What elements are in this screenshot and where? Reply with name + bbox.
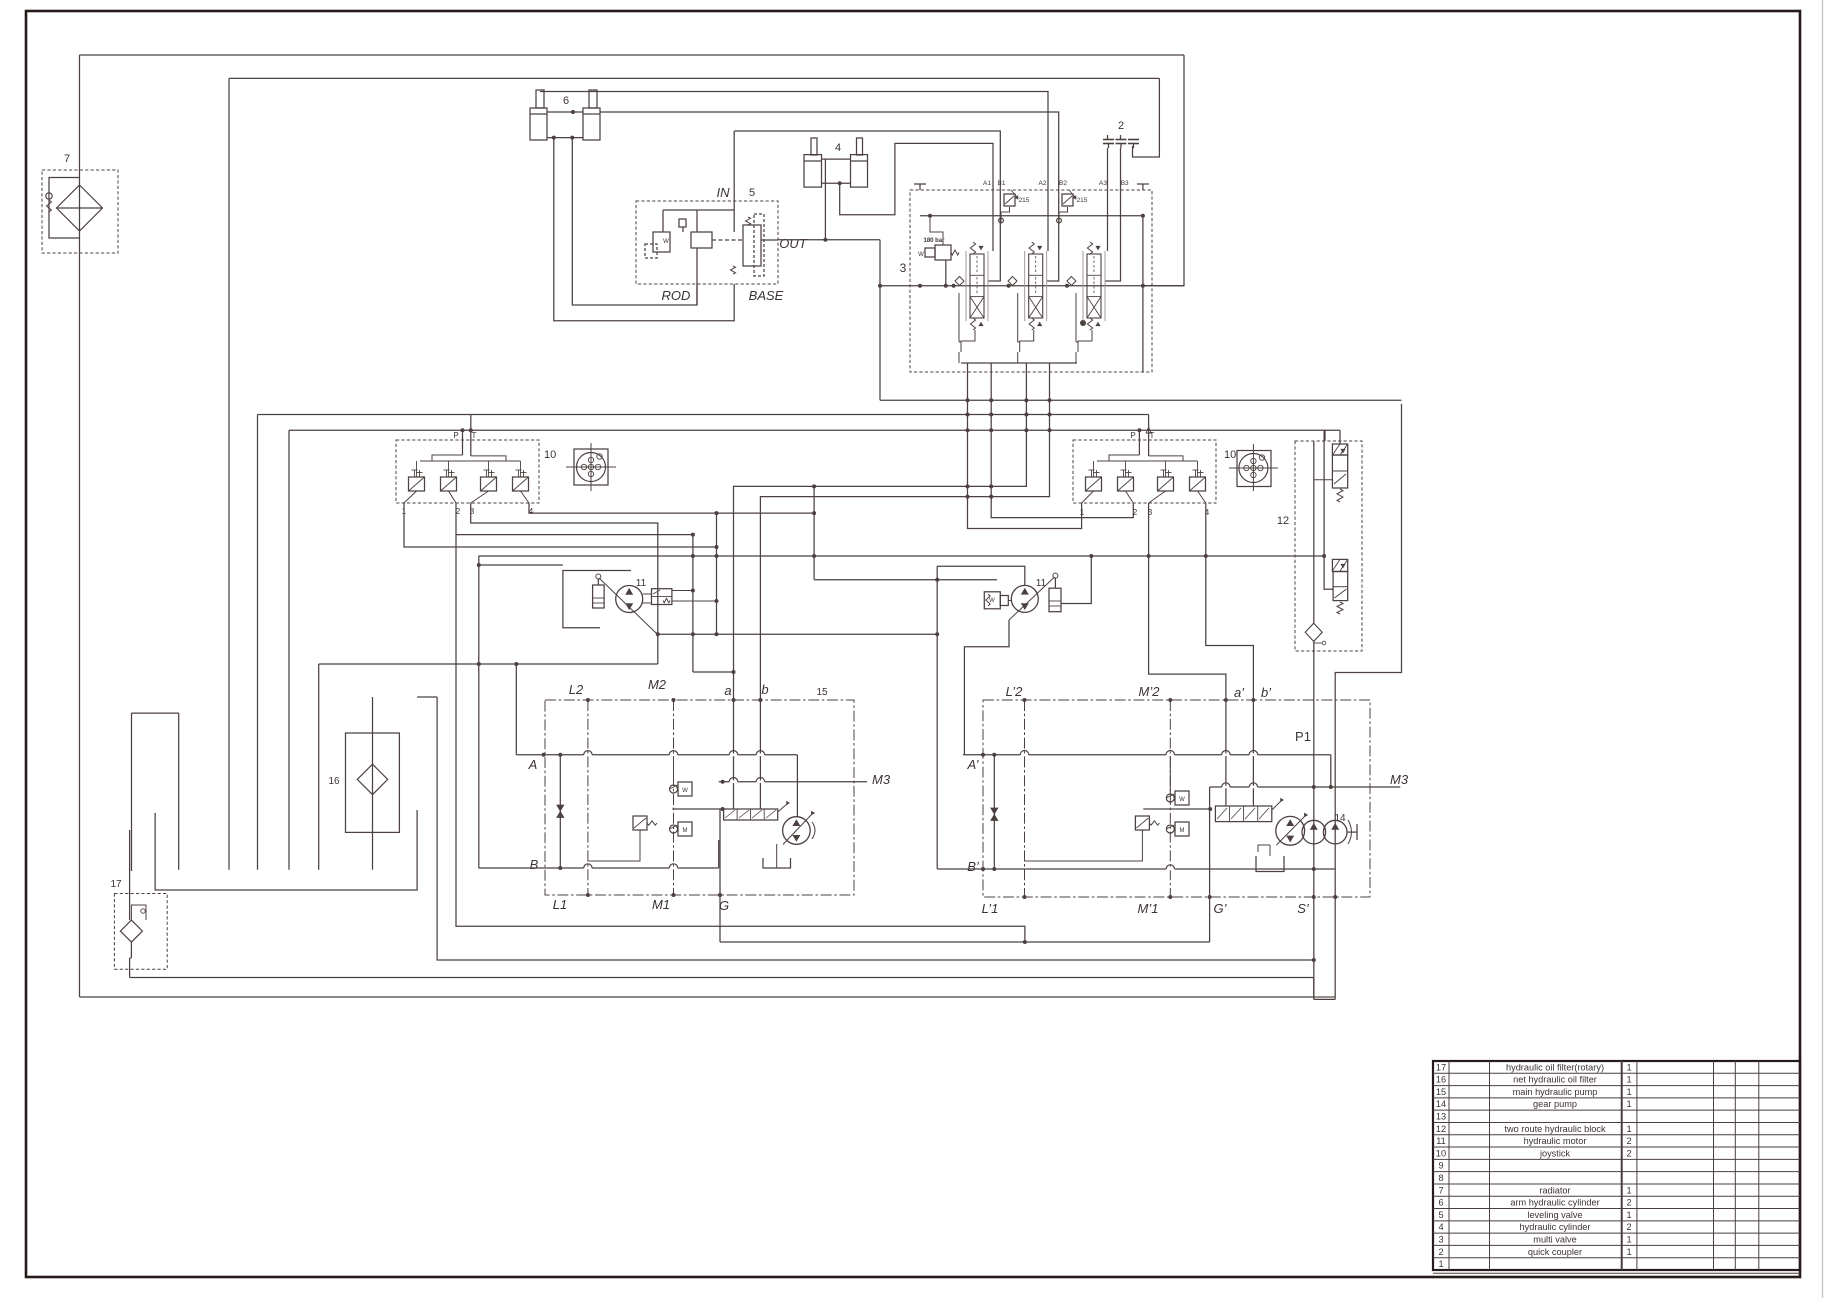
svg-text:T: T [1150,431,1155,440]
svg-text:3: 3 [900,261,907,275]
relief valve link [1001,207,1010,218]
wire to motor box [479,564,563,566]
leveling valve 5 box [636,201,778,284]
valve3 drain header [961,362,1077,364]
wire bus y960 [437,959,1314,961]
wire bus to block12 top [1324,430,1326,441]
svg-text:1: 1 [1626,1210,1631,1220]
tank outline bottom [155,810,417,890]
cyl6 right piston [583,113,600,115]
wire B line [479,867,719,869]
motor11L link top [643,593,652,595]
svg-text:14: 14 [1334,813,1346,824]
check valve A'-B' bowtie [993,755,995,869]
svg-text:M’1: M’1 [1138,901,1159,916]
wire joystickL p1 to motor valve [404,503,717,547]
motor valve link b [672,600,717,602]
wire bus drop x318 [318,664,320,870]
wire right enclosure [1335,404,1401,999]
svg-text:1: 1 [1080,508,1085,517]
wire valve3 to joystickR port1 [968,363,1082,529]
block12 top valve left link [1314,479,1333,481]
table row line [1433,1183,1800,1185]
joystickR T arrow [1146,427,1151,433]
block12 bottom solenoid hatch [1332,559,1347,571]
svg-text:8: 8 [1438,1173,1443,1183]
joystickR port link [1126,491,1134,503]
wire bus y428 [289,429,1340,431]
svg-text:215: 215 [1019,197,1030,204]
table bottom double line [1433,1272,1800,1274]
joystickR reducing valve [1190,477,1206,491]
table row line [1433,1134,1800,1136]
quick coupler 2 element 1 [1103,139,1114,141]
svg-text:BASE: BASE [749,288,784,303]
joystickR P line [1138,430,1140,455]
svg-text:b’: b’ [1261,685,1272,700]
valve3 main line [880,285,1184,287]
block12 top solenoid hatch [1332,444,1347,455]
page edge line right [1822,0,1824,1298]
svg-text:G’: G’ [1214,901,1228,916]
wire bus drop x290 [288,430,290,870]
table row line [1433,1195,1800,1197]
wire left bus x79 [79,55,81,997]
wire B right riser [718,840,720,868]
filter17 bypass circle [141,909,145,913]
joystickL T line [470,415,472,456]
tank v2 [178,713,180,870]
spool3 dot [1080,320,1086,326]
wire A' drop to M3 [1330,755,1332,787]
wire motor drain [658,633,937,635]
arm hydraulic cylinder 6 right rod [589,90,597,108]
svg-text:12: 12 [1436,1124,1446,1134]
svg-text:T: T [472,431,477,440]
svg-text:B3: B3 [1121,180,1129,187]
svg-text:joystick: joystick [1539,1148,1571,1158]
valve5 cb spring [746,217,751,225]
wire A' line [963,754,1331,756]
relief valve 215 [1004,194,1015,206]
pump15 relief drain [588,830,640,861]
joystickR port link [1082,491,1094,503]
wire bus y997 [80,996,1336,998]
svg-text:arm hydraulic cylinder: arm hydraulic cylinder [1510,1198,1599,1208]
hydraulic cylinder 4 left rod [811,138,817,155]
table row line [1433,1158,1800,1160]
wire A to pump top [796,755,798,817]
radiator 7 mid line [57,207,103,209]
valve5 middle valve [691,232,712,248]
svg-text:10: 10 [544,449,556,461]
wire filter16 line [372,697,374,870]
wire y672 to a [693,671,734,673]
svg-text:A3: A3 [1099,180,1107,187]
svg-text:a: a [724,683,731,698]
pilot valve spring [951,250,959,255]
svg-text:2: 2 [1626,1198,1631,1208]
svg-text:7: 7 [1438,1185,1443,1195]
wire x478 drop [478,556,480,868]
joystick 10 left box [396,440,539,503]
wire A riser [515,664,517,755]
svg-text:hydraulic motor: hydraulic motor [1524,1136,1587,1146]
cyl6 link bottom [547,137,583,139]
wire x437 drop [436,697,438,960]
wire a drop [733,700,735,809]
pilot valve drop [945,260,947,286]
wire y664 [319,663,658,665]
pumpR pilot line [1143,808,1210,810]
svg-text:gear pump: gear pump [1533,1099,1577,1109]
wire bus y417 [258,414,1149,416]
svg-text:M3: M3 [1390,772,1409,787]
motor11L drain diagonal [655,632,658,634]
wire valve3 to pump b [760,363,1049,700]
motor11L lever [597,579,599,585]
svg-text:16: 16 [1436,1075,1446,1085]
wire motor11R to bus [1061,556,1091,604]
pumpR drain [1269,845,1271,856]
svg-text:6: 6 [563,95,569,107]
pump15 variable arrow [783,814,812,845]
svg-text:L’2: L’2 [1006,684,1023,699]
valve5 OUT stub [761,239,778,241]
block12 filter diamond [1305,623,1322,641]
pumpR upper W box [1175,791,1189,805]
wire motor11R top feed [937,566,1025,585]
cyl4 left piston [804,160,822,162]
pumpR lower check valve [1166,825,1174,833]
svg-text:180 bar: 180 bar [923,238,945,244]
valve5 rail drop mid [696,210,698,232]
valve5 bottom spring [731,266,736,274]
svg-text:1: 1 [1626,1185,1631,1195]
joystickR port link [1149,491,1166,503]
filter17 out [130,942,132,958]
svg-text:M3: M3 [872,772,891,787]
coupler stub A3 [1107,135,1109,140]
pump15 directional valve [724,809,778,820]
table row line [1433,1085,1800,1087]
gear pump 14 circle 1 [1302,820,1326,844]
pump15 valve arrow [778,804,787,812]
joystickL reducing valve [441,477,457,491]
wire b' drop [1252,700,1254,806]
joystickL reducing valve [513,477,529,491]
valve5 top rail [663,209,734,211]
svg-text:multi valve: multi valve [1533,1235,1576,1245]
joystickL port link [404,491,417,503]
pumpR relief valve [1135,816,1149,830]
svg-text:6: 6 [1438,1198,1443,1208]
spool3 drain [1075,352,1077,363]
wire x692 link [692,535,694,672]
joystickR reducing valve [1086,477,1102,491]
wire G' line [1209,787,1211,942]
coupler stub B3 [1120,135,1122,140]
wire G to G' [720,941,1210,943]
motor11L relief valve [652,589,672,605]
table row line [1433,1097,1800,1099]
svg-text:B’: B’ [967,859,980,874]
cyl4 link bottom [821,182,850,184]
valve5 ROD internal drop [696,248,698,305]
svg-text:B1: B1 [998,180,1006,187]
quick coupler 2 element 3 [1128,139,1139,141]
svg-text:net hydraulic oil filter: net hydraulic oil filter [1513,1075,1597,1085]
hydraulic motor 11 right circle [1011,585,1038,612]
svg-text:1: 1 [1626,1247,1631,1257]
svg-text:B2: B2 [1059,180,1067,187]
svg-text:16: 16 [328,776,340,787]
radiator bypass valve circle [46,193,52,199]
valve5 counterbalance valve [743,225,761,266]
hydraulic cylinder 4 right body [851,155,868,188]
arm hydraulic cylinder 6 right body [583,108,600,140]
svg-text:10: 10 [1436,1148,1446,1158]
wire a' drop [1225,700,1227,806]
cyl4 right piston [851,160,868,162]
wire cyl6 rod line to A2 [540,92,1048,252]
svg-text:10: 10 [1224,449,1236,461]
wire cyl4 to A1 [840,143,993,251]
pump15 drain [776,844,778,868]
spool1 drain [958,352,960,363]
wire x814 link [813,486,815,579]
table row line [1433,1171,1800,1173]
pumpR tank bracket [1256,856,1284,872]
pumpR valve arrow [1272,801,1281,810]
joystickL P line [462,430,464,455]
valve3 tank symbol right [1142,184,1144,190]
motor11R lever diagonal [1009,577,1055,620]
radiator 7 box [42,170,118,253]
valve5 rail drop left [662,210,664,232]
radiator 7 diamond [57,185,103,231]
joystickL reducing valve [409,477,425,491]
wire bus y78 [229,77,1159,79]
joystickR manifold b [1149,456,1183,461]
svg-text:b: b [761,682,768,697]
table column line [1636,1061,1638,1270]
motor11R brake cylinder [1049,588,1061,612]
wire left bus x229 [228,78,230,869]
svg-text:3: 3 [1438,1235,1443,1245]
motor11R valve piece [1000,596,1008,606]
motor11R relief valve [984,592,1000,609]
pumpR directional valve [1215,806,1271,822]
cyl6 left piston [530,113,547,115]
table row line [1433,1220,1800,1222]
wire x937 to B' [936,566,938,869]
wire bus y556 [479,555,1324,557]
svg-text:W: W [989,598,995,604]
svg-text:5: 5 [749,187,755,199]
joystickL manifold rail [420,460,521,462]
svg-text:leveling valve: leveling valve [1527,1210,1582,1220]
pump15 upper W box [678,782,692,796]
wire OUT line [778,239,880,241]
wire joystickR p3 to a' [1149,503,1226,700]
check valve diamond [955,277,964,286]
svg-text:P: P [1130,431,1135,440]
wire tank return top [80,54,1185,56]
check valve diamond [1008,277,1017,286]
relief valve 215 [1062,194,1073,206]
hydraulic cylinder 4 right rod [857,138,863,155]
svg-text:L2: L2 [569,682,584,697]
svg-text:A2: A2 [1039,180,1047,187]
wire G line [719,809,721,942]
wire OUT to cyl4 top [824,159,826,240]
svg-text:13: 13 [1436,1112,1446,1122]
relief valve port circle [999,218,1004,223]
pilot valve feed [930,216,943,245]
joystickR T line [1148,415,1150,456]
joystick 10 right box [1073,440,1216,503]
wire B3 drop [1105,148,1121,281]
pump15 relief valve [633,816,647,830]
wire valve3 to joystickR port2 [991,363,1133,518]
relief valve port circle [1057,218,1062,223]
svg-text:W: W [918,252,924,258]
pump15 tank bracket [763,858,791,868]
joystickL port link [471,491,489,503]
svg-text:215: 215 [1077,197,1088,204]
wire joystickR p4 to b' [1206,503,1254,700]
round connector left [574,449,608,485]
wire joystickL p4 [529,503,814,513]
svg-text:17: 17 [1436,1062,1446,1072]
wire p2 to bottom bus [456,535,1025,942]
joystickL port link [521,491,530,503]
check valve A-B bowtie [559,755,561,868]
tank left v1 [131,713,133,871]
block12 top spring [1337,489,1343,502]
wire block12 x1324 [1324,430,1333,589]
joystickR reducing valve [1158,477,1174,491]
block12 bottom solenoid valve [1333,572,1348,601]
wire cyl6 to valve5 BASE [554,138,734,321]
wire M3 line right [1210,786,1401,788]
svg-text:4: 4 [1438,1222,1443,1232]
wire hops left pump [584,753,592,756]
svg-text:4: 4 [835,142,841,154]
hydraulic oil filter 17 box [114,894,167,970]
svg-text:a’: a’ [1234,685,1245,700]
motor11R lever [1054,578,1056,588]
svg-text:2: 2 [1626,1222,1631,1232]
wire IN feed to B1 [734,131,1000,281]
joystickL manifold b [471,456,506,461]
svg-text:OUT: OUT [779,236,808,251]
wire to quick coupler [1133,78,1160,157]
two route hydraulic block 12 box [1295,441,1362,651]
svg-text:W: W [682,788,688,794]
svg-text:S’: S’ [1297,901,1310,916]
wire motor11R drain to A' [964,620,1009,755]
wire to multi valve T [1142,55,1184,286]
svg-text:7: 7 [64,153,70,165]
svg-text:main hydraulic pump: main hydraulic pump [1513,1087,1598,1097]
svg-text:1: 1 [1626,1075,1631,1085]
svg-text:M: M [1180,828,1185,834]
motor11L brake cylinder [593,585,605,608]
svg-text:radiator: radiator [1539,1185,1570,1195]
pump15 side arcs [812,822,815,839]
valve5 small box [679,219,686,227]
joystickR port link [1198,491,1206,503]
wire A3 drop [1107,148,1109,251]
svg-text:hydraulic cylinder: hydraulic cylinder [1520,1222,1591,1232]
check valve diamond [1067,277,1076,286]
valve5 relief pilot dashed [645,244,657,258]
wire cyl6 base line to B2 [600,112,1059,281]
filter17 bypass [131,905,146,920]
pumpR L line [1024,700,1026,897]
svg-text:17: 17 [110,879,122,890]
table row line [1433,1257,1800,1259]
wire y697 [417,696,437,698]
multi valve 3 box [910,190,1152,372]
hydraulic cylinder 4 left body [804,155,822,188]
valve5 dashed pilot link [712,239,743,241]
table row line [1433,1109,1800,1111]
wire x716 link [716,513,718,634]
pumpR relief drain [1025,830,1143,861]
svg-text:hydraulic oil filter(rotary): hydraulic oil filter(rotary) [1506,1062,1604,1072]
joystickR manifold a [1109,455,1139,461]
svg-text:A’: A’ [966,757,979,772]
wire A line [516,754,797,756]
svg-text:1: 1 [1626,1235,1631,1245]
svg-text:2: 2 [1626,1148,1631,1158]
svg-text:M1: M1 [652,897,670,912]
wire bus y404 [880,399,1402,401]
table row line [1433,1072,1800,1074]
wire bus to block12 solenoid [1339,430,1341,444]
parts table [1433,1061,1800,1270]
wire cyl6 to valve5 ROD [572,138,697,305]
svg-text:B: B [530,857,539,872]
joystickL manifold a [432,455,463,461]
net hydraulic oil filter 16 box [346,733,400,832]
wire P1 S line [1313,641,1315,999]
wire block12 internal x1313 [1313,441,1315,623]
svg-text:2: 2 [1438,1247,1443,1257]
svg-text:12: 12 [1277,515,1289,527]
svg-text:2: 2 [1118,120,1124,132]
wire filter17 to bus [129,958,131,978]
joystickL port link [449,491,457,503]
table row line [1433,1232,1800,1234]
pumpR variable arrow [1277,816,1306,845]
wire valve5 IN drop [733,131,735,232]
table row line [1433,1244,1800,1246]
table column line [1734,1061,1736,1270]
block12 filter tap [1314,642,1322,644]
svg-text:1: 1 [1438,1259,1443,1269]
valve3 pilot line [920,215,1143,217]
svg-text:P: P [453,431,458,440]
svg-text:quick coupler: quick coupler [1528,1247,1582,1257]
joystickR manifold rail [1097,460,1198,462]
wire S' tail [1313,978,1315,1000]
pumpR M line [1169,700,1171,897]
round connector right [1237,451,1271,487]
